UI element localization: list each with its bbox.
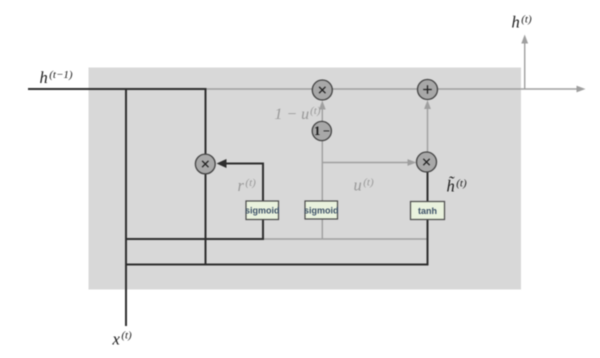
svg-text:h(t−1): h(t−1)	[40, 68, 73, 87]
svg-text:sigmoid: sigmoid	[304, 206, 339, 216]
svg-text:tanh: tanh	[418, 206, 437, 216]
svg-text:h(t): h(t)	[512, 13, 532, 32]
svg-text:sigmoid: sigmoid	[245, 206, 280, 216]
svg-text:1 −: 1 −	[314, 124, 330, 138]
svg-text:x(t): x(t)	[112, 330, 133, 349]
